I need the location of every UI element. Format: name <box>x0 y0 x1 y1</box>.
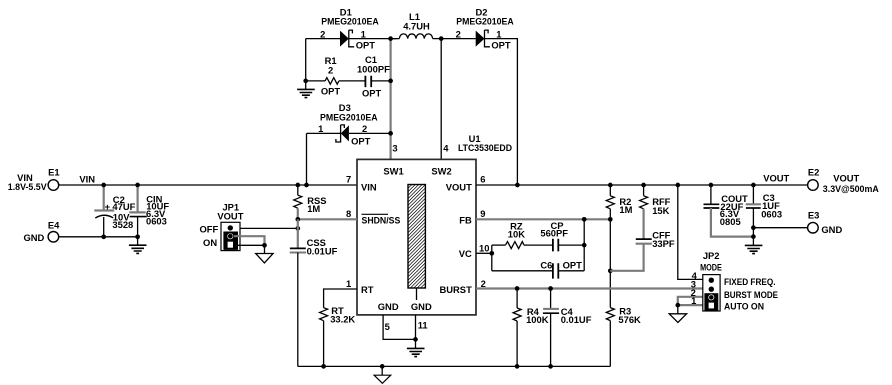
svg-text:GND: GND <box>821 224 842 235</box>
svg-text:10: 10 <box>479 242 489 253</box>
wire L1 to D2 <box>441 38 476 40</box>
svg-text:AUTO ON: AUTO ON <box>724 301 764 312</box>
svg-text:1: 1 <box>361 28 366 39</box>
svg-text:0.01UF: 0.01UF <box>307 246 338 257</box>
svg-text:1: 1 <box>318 123 323 134</box>
wire D3 anode down to VIN rail <box>306 133 308 185</box>
capacitor C3 <box>746 185 782 245</box>
ground triangle bottom center <box>374 364 391 383</box>
op-amp U1 LTC3530EDD body <box>357 133 512 315</box>
svg-text:576K: 576K <box>618 314 641 325</box>
junction JP2 pin4 / VOUT rail <box>675 183 680 188</box>
svg-text:1000PF: 1000PF <box>357 64 390 75</box>
junction R2 / FB wire <box>608 217 613 222</box>
junction VIN/C2 <box>101 183 106 188</box>
junction JP1 ground <box>262 243 267 248</box>
svg-text:SHDN/SS: SHDN/SS <box>362 215 401 226</box>
diode D2 PMEG2010EA <box>456 6 514 50</box>
capacitor CP <box>540 220 584 252</box>
capacitor C1 <box>357 54 391 98</box>
terminal E2 <box>808 166 879 194</box>
wire SHDN/SS pin 8 (gray) <box>298 218 357 220</box>
jumper JP2 <box>700 250 722 311</box>
svg-text:FB: FB <box>459 215 472 226</box>
capacitor C6 <box>492 260 584 279</box>
resistor R4 <box>513 289 549 367</box>
svg-text:4: 4 <box>443 142 449 153</box>
svg-text:5: 5 <box>385 321 390 332</box>
junction pin11 stub <box>413 337 418 342</box>
svg-text:15K: 15K <box>652 205 669 216</box>
ground under C3 <box>745 245 763 253</box>
svg-text:E1: E1 <box>48 166 59 177</box>
jumper JP1 <box>199 201 243 250</box>
terminal E4 <box>23 219 60 242</box>
svg-text:4.7UH: 4.7UH <box>403 21 430 32</box>
wire FB pin 9 (gray) <box>476 218 610 220</box>
wire VOUT rail pin 6 to E2 <box>476 184 808 186</box>
wire FB node vertical R2 to R3 <box>609 219 611 307</box>
exposed pad (hatched) <box>404 165 428 311</box>
svg-text:E3: E3 <box>808 209 819 220</box>
svg-text:100K: 100K <box>526 314 549 325</box>
junction RZ-CP branch / FB vertical <box>582 243 587 248</box>
svg-text:33PF: 33PF <box>652 238 675 249</box>
svg-text:9: 9 <box>480 208 485 219</box>
svg-text:GND: GND <box>378 301 399 312</box>
svg-text:1: 1 <box>346 278 351 289</box>
ground under CIN <box>129 245 147 253</box>
wire D2 cathode to VOUT rail <box>485 39 518 185</box>
svg-text:2: 2 <box>328 65 333 76</box>
junction JP2 ground <box>675 303 680 308</box>
svg-text:0.01UF: 0.01UF <box>561 314 592 325</box>
svg-text:BURST MODE: BURST MODE <box>724 289 778 300</box>
svg-text:VOUT: VOUT <box>446 182 472 193</box>
wire E4 to input cap ground <box>58 236 137 238</box>
wire SW2 vertical (pin 4) <box>440 39 442 160</box>
junction D1 anode / R1 <box>303 79 308 84</box>
diode D3 PMEG2010EA <box>307 102 391 147</box>
junction C3 / VOUT rail <box>751 183 756 188</box>
svg-text:E2: E2 <box>808 166 819 177</box>
wire FB vertical to C6 branch <box>583 219 585 270</box>
svg-text:1: 1 <box>691 295 696 306</box>
svg-text:6: 6 <box>480 173 485 184</box>
junction C1 / SW1 <box>388 79 393 84</box>
resistor RZ <box>492 221 553 249</box>
svg-text:0805: 0805 <box>720 216 741 227</box>
pin 5 / pin 11 ground stubs <box>383 315 415 349</box>
wire VIN rail from E1 to U1 pin 7 <box>58 184 357 186</box>
svg-text:1.8V-5.5V: 1.8V-5.5V <box>8 181 47 192</box>
junction COUT / VOUT rail <box>709 183 714 188</box>
ground under D1 anode branch <box>297 89 315 97</box>
svg-text:1M: 1M <box>307 203 320 214</box>
junction RT / bottom rail <box>321 364 326 369</box>
svg-text:VIN: VIN <box>79 174 95 185</box>
junction C4 / BURST wire <box>548 286 553 291</box>
junction C3 / E3 wire <box>751 225 756 230</box>
diode D1 PMEG2010EA <box>320 6 379 50</box>
junction D3 / SW1 vertical <box>388 131 393 136</box>
resistor R2 <box>606 185 632 219</box>
ground triangle JP2 <box>669 305 686 322</box>
junction C3 / COUT bottom <box>751 234 756 239</box>
capacitor C2 <box>94 185 135 237</box>
junction L1 / D2 / SW2 <box>439 36 444 41</box>
svg-text:2: 2 <box>481 278 486 289</box>
svg-text:3: 3 <box>392 142 397 153</box>
svg-text:10K: 10K <box>508 229 525 240</box>
junction RSS / pin8 <box>295 217 300 222</box>
resistor RFF <box>640 185 671 239</box>
svg-text:PMEG2010EA: PMEG2010EA <box>321 15 379 26</box>
svg-text:2: 2 <box>362 123 367 134</box>
svg-text:OPT: OPT <box>491 39 511 50</box>
svg-text:2: 2 <box>456 28 461 39</box>
svg-text:11: 11 <box>418 320 428 331</box>
svg-text:+: + <box>105 201 111 212</box>
svg-text:C6: C6 <box>540 260 552 271</box>
capacitor CSS <box>290 237 338 367</box>
svg-text:3.3V@500mA: 3.3V@500mA <box>823 183 879 194</box>
wire SW1 vertical (pin 3, gray net) <box>390 39 392 160</box>
inductor L1 <box>391 11 442 39</box>
svg-text:0603: 0603 <box>146 216 167 227</box>
svg-text:GND: GND <box>411 301 432 312</box>
junction FB wire / vertical <box>582 217 587 222</box>
svg-text:OPT: OPT <box>362 88 382 99</box>
junction VIN rail / RSS <box>295 183 300 188</box>
junction VIN/CIN <box>135 183 140 188</box>
wire JP2 pin 1 (gray) <box>678 304 703 306</box>
resistor R1 <box>306 55 366 96</box>
resistor RSS <box>294 185 327 219</box>
svg-text:PMEG2010EA: PMEG2010EA <box>320 111 378 122</box>
junction E4/C2 <box>101 234 106 239</box>
svg-text:33.2K: 33.2K <box>330 313 355 324</box>
wire JP2 pin 4 to VOUT rail <box>678 185 703 279</box>
ground triangle JP1 <box>256 245 273 263</box>
svg-text:OPT: OPT <box>321 85 341 96</box>
junction E4/CIN <box>135 234 140 239</box>
junction VIN rail / D3 <box>304 183 309 188</box>
junction C4 / bottom rail <box>548 364 553 369</box>
svg-text:PMEG2010EA: PMEG2010EA <box>456 15 514 26</box>
junction VC stub <box>489 251 494 256</box>
capacitor C4 <box>543 289 592 367</box>
wire COUT bottom to C3 node (gray) <box>711 208 754 237</box>
ground under U1 GND pins <box>407 348 425 356</box>
svg-text:3528: 3528 <box>112 219 133 230</box>
terminal E1 <box>8 166 60 192</box>
junction RFF / VOUT rail <box>641 183 646 188</box>
junction R2 / VOUT rail <box>608 183 613 188</box>
svg-text:OPT: OPT <box>356 39 376 50</box>
wire JP1 bottom pin to ground <box>238 244 265 246</box>
terminal E3 <box>808 209 843 234</box>
wire BURST pin 2 to JP2 pin 3 (gray) <box>476 287 703 289</box>
capacitor CIN <box>129 185 169 245</box>
svg-text:2: 2 <box>320 28 325 39</box>
svg-text:1M: 1M <box>619 204 632 215</box>
svg-text:VIN: VIN <box>361 182 377 193</box>
svg-text:OPT: OPT <box>563 260 583 271</box>
svg-text:BURST: BURST <box>440 284 473 295</box>
capacitor COUT <box>704 185 749 227</box>
wire E3 to C3 node <box>753 227 808 229</box>
junction D1 cathode / L1 / SW1 <box>388 36 393 41</box>
svg-text:OPT: OPT <box>351 136 371 147</box>
svg-text:JP2: JP2 <box>703 250 720 261</box>
svg-text:OFF: OFF <box>199 224 218 235</box>
svg-text:SW1: SW1 <box>383 166 403 177</box>
svg-text:LTC3530EDD: LTC3530EDD <box>458 142 512 153</box>
wire JP1 top pin to SHDN node <box>230 227 297 229</box>
svg-text:SW2: SW2 <box>431 166 451 177</box>
svg-text:GND: GND <box>23 232 44 243</box>
junction R4 / bottom rail <box>515 364 520 369</box>
svg-text:RT: RT <box>361 284 374 295</box>
svg-text:VOUT: VOUT <box>217 211 243 222</box>
wire JP1 middle pin to ground (gray) <box>234 236 265 244</box>
svg-text:560PF: 560PF <box>540 228 568 239</box>
wire VC branch vertical <box>491 245 493 271</box>
svg-text:VOUT: VOUT <box>763 173 789 184</box>
svg-text:8: 8 <box>346 208 351 219</box>
resistor R3 <box>606 306 641 367</box>
svg-text:MODE: MODE <box>700 261 722 272</box>
wire VC pin 10 <box>476 252 492 254</box>
svg-text:0603: 0603 <box>761 209 782 220</box>
wire SHDN rail down to CSS <box>297 219 299 248</box>
wire JP2 pin 2 (gray) <box>678 297 703 305</box>
svg-text:1: 1 <box>496 28 501 39</box>
wire D1 anode branch vertical <box>305 39 307 90</box>
wire bottom ground rail <box>298 365 611 367</box>
svg-text:VOUT: VOUT <box>833 173 859 184</box>
junction VOUT / D2 branch <box>515 183 520 188</box>
junction JP1 wire / SHDN rail <box>295 226 300 231</box>
svg-text:VC: VC <box>459 248 472 259</box>
svg-text:7: 7 <box>346 173 351 184</box>
svg-text:ON: ON <box>203 237 217 248</box>
junction R4 / BURST wire <box>515 286 520 291</box>
svg-text:FIXED FREQ.: FIXED FREQ. <box>724 276 776 287</box>
svg-text:E4: E4 <box>48 219 60 230</box>
resistor RT <box>320 289 357 366</box>
capacitor CFF <box>610 230 675 271</box>
wire top rail D1 to L1 <box>306 38 397 40</box>
junction CFF branch / FB vertical <box>608 268 613 273</box>
